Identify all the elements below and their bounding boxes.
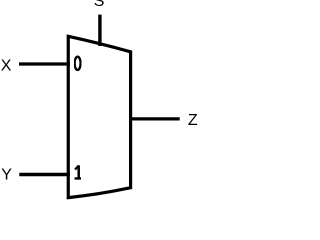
svg-text:S: S: [94, 0, 105, 10]
pin 0 label: [75, 57, 81, 70]
multiplexer U1 (2:1 mux trapezoid body): [68, 36, 130, 197]
pin 1 label: [75, 165, 81, 178]
svg-text:Z: Z: [188, 112, 198, 129]
wire Z output: [130, 117, 180, 120]
svg-text:X: X: [1, 58, 12, 75]
wire Y input: [19, 173, 70, 177]
wire X input: [19, 62, 70, 65]
wire S select: [98, 15, 101, 46]
svg-text:Y: Y: [1, 167, 12, 184]
